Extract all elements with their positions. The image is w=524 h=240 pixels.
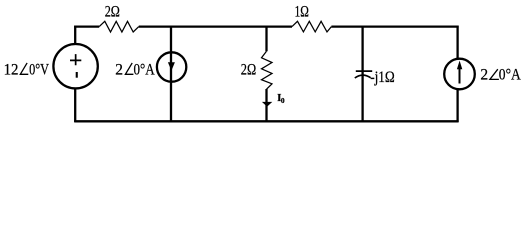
current source I1 circle (157, 52, 186, 81)
svg-text:0°A: 0°A (499, 66, 522, 83)
svg-text:12: 12 (4, 62, 19, 79)
svg-text:2: 2 (115, 62, 123, 79)
svg-text:1Ω: 1Ω (295, 3, 309, 20)
wire branch2 vertical (170, 26, 172, 122)
wire right branch bottom (456, 90, 458, 122)
V1 angle symbol (20, 63, 28, 74)
I1 angle symbol (125, 63, 133, 74)
wire bottom rail (74, 120, 458, 122)
capacitor C1 straight plate (356, 70, 372, 72)
svg-text:0°V: 0°V (29, 62, 50, 79)
V1 plus sign (70, 54, 81, 65)
svg-text:0: 0 (281, 96, 285, 105)
voltage source V1 circle (53, 44, 97, 88)
svg-text:-j1Ω: -j1Ω (370, 69, 395, 86)
I2 angle symbol (490, 69, 499, 79)
resistor R3 2ohm vertical zigzag (262, 51, 273, 89)
capacitor C1 curved plate (355, 75, 371, 78)
V1 minus tick (76, 72, 78, 78)
wire top rail middle segment (139, 25, 292, 27)
current source I2 circle (444, 59, 475, 90)
wire branch4 capacitor vertical (361, 26, 363, 122)
I2 arrowhead up (457, 61, 462, 70)
wire branch3 top (265, 26, 267, 52)
svg-text:2Ω: 2Ω (105, 3, 120, 20)
resistor R1 2ohm zigzag (99, 21, 139, 32)
wire right branch top (456, 26, 458, 59)
current arrow I0 head (262, 102, 272, 107)
wire top rail left segment (74, 25, 99, 27)
I2 arrow shaft (459, 69, 461, 84)
resistor R2 1ohm zigzag (292, 21, 331, 32)
I1 arrowhead down (168, 62, 175, 71)
svg-text:2: 2 (480, 66, 488, 83)
svg-text:0°A: 0°A (134, 62, 156, 79)
wire top rail right segment (331, 25, 458, 27)
wire left branch bottom (74, 89, 76, 122)
wire left branch top (74, 26, 76, 44)
svg-text:2Ω: 2Ω (241, 62, 256, 79)
wire branch3 bottom (265, 89, 267, 122)
